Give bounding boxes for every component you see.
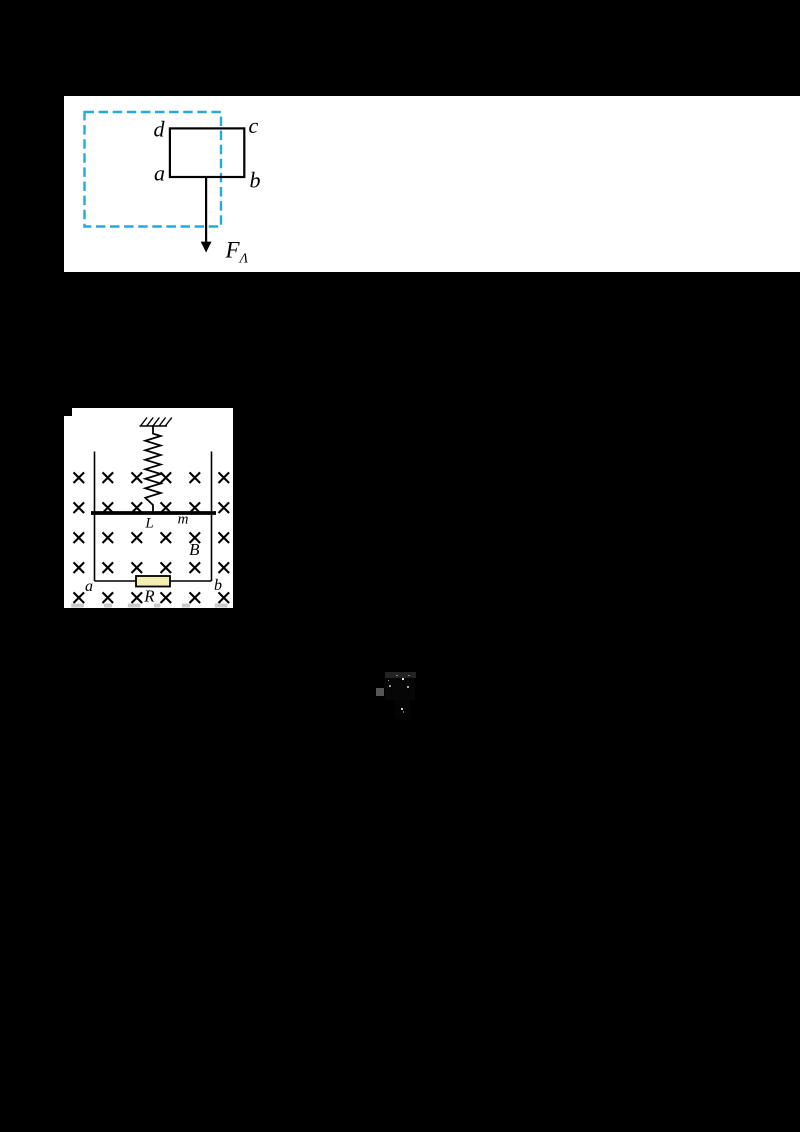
svg-text:b: b xyxy=(249,168,260,193)
ceiling hatching xyxy=(141,418,172,427)
left rail wire xyxy=(94,452,96,582)
faded cross remnants xyxy=(71,604,84,608)
resistor R xyxy=(136,576,170,587)
magnetic field crosses (B into page) xyxy=(74,472,230,603)
svg-text:R: R xyxy=(143,587,155,606)
svg-text:m: m xyxy=(178,512,189,528)
svg-text:a: a xyxy=(85,578,93,595)
white panel 2 (spring-rod-rail circuit in field B) xyxy=(64,408,233,608)
bottom wire xyxy=(95,580,212,582)
force arrow F xyxy=(200,177,211,253)
svg-text:d: d xyxy=(153,117,165,142)
svg-text:L: L xyxy=(144,516,153,532)
white panel 1 (loop abcd figure) xyxy=(64,96,800,272)
ceiling line xyxy=(140,425,168,427)
svg-text:FΛ: FΛ xyxy=(224,238,248,267)
svg-text:c: c xyxy=(248,113,258,138)
svg-text:a: a xyxy=(154,161,165,186)
dashed field-region boundary xyxy=(84,112,221,227)
spring xyxy=(145,426,160,513)
corner notch xyxy=(64,408,72,416)
dark thumbnail smudge xyxy=(385,672,416,679)
svg-text:b: b xyxy=(214,577,222,594)
conducting rod L (mass m) xyxy=(91,511,216,515)
right rail wire xyxy=(211,452,213,582)
coil loop abcd xyxy=(169,128,243,177)
svg-text:B: B xyxy=(189,540,200,559)
